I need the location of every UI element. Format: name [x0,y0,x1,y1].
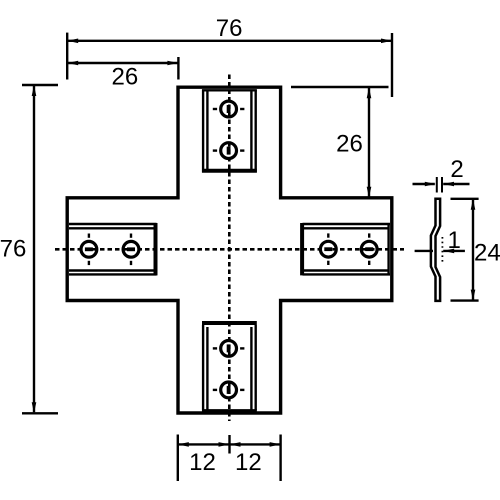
dim 2 [413,177,470,193]
dotted original-face line [441,237,443,262]
svg-text:76: 76 [216,15,243,42]
dim 76 left [22,85,58,413]
dim 76 top [67,33,392,97]
hole left-2 [123,234,139,266]
holes [81,101,377,398]
left arm plate [69,223,157,275]
hole bottom-2 [213,382,245,398]
side centerline solid left [415,250,433,252]
hole left-1 [81,234,97,266]
dim 26 right [291,87,389,197]
hole right-1 [320,233,336,265]
svg-text:12: 12 [189,449,216,476]
svg-text:24: 24 [474,240,500,267]
svg-text:26: 26 [336,131,363,158]
dim 12 12 bottom [178,435,281,482]
svg-text:12: 12 [235,449,262,476]
svg-text:76: 76 [0,235,26,262]
hole top-1 [213,101,245,117]
horizontal centerline [55,248,404,251]
cross plate outline [67,87,392,413]
hole right-2 [361,233,377,265]
dim 24 [451,199,479,301]
svg-text:26: 26 [112,64,139,91]
dim 1 [443,250,465,252]
svg-text:2: 2 [450,156,463,183]
side profile [431,199,440,301]
vertical centerline [228,75,231,421]
svg-text:1: 1 [448,227,461,254]
dim 26 top-left [68,57,178,80]
top arm plate [202,90,257,173]
right arm plate [302,223,390,275]
bottom arm plate [202,323,257,411]
hole top-2 [213,143,245,159]
hole bottom-1 [213,341,245,357]
